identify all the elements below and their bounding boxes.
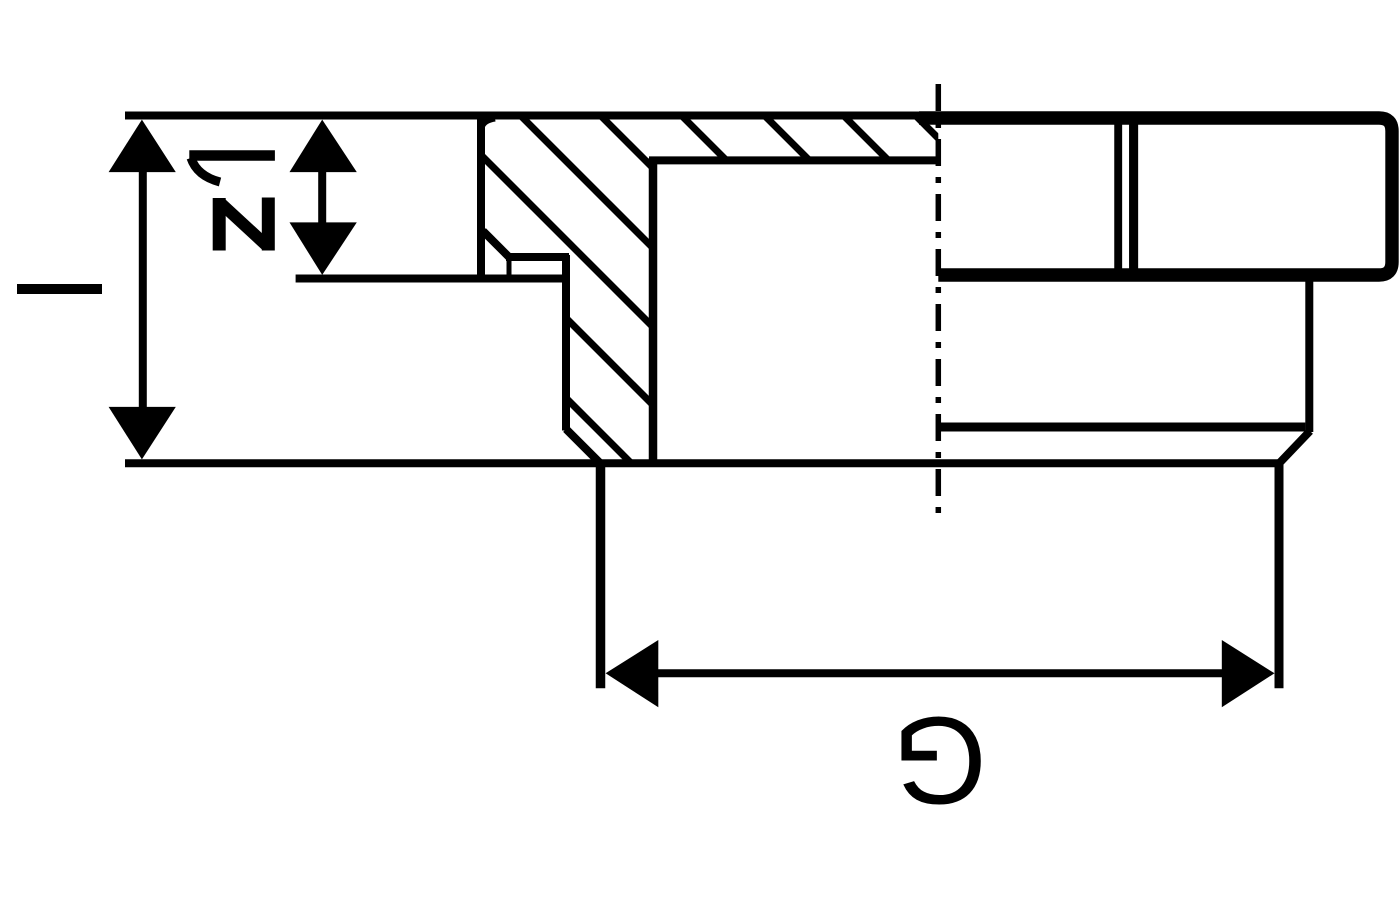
svg-text:G: G [892,690,987,828]
